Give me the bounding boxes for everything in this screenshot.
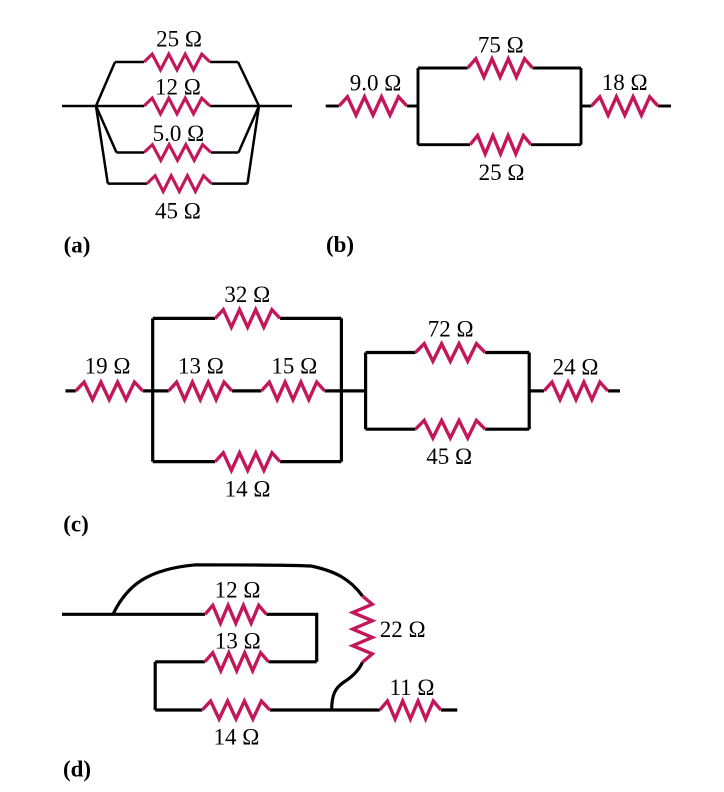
svg-text:45 Ω: 45 Ω: [155, 199, 201, 224]
svg-text:14 Ω: 14 Ω: [213, 724, 259, 749]
svg-text:12 Ω: 12 Ω: [215, 578, 261, 603]
svg-text:(c): (c): [63, 512, 89, 537]
svg-text:13 Ω: 13 Ω: [178, 354, 224, 379]
svg-text:(d): (d): [63, 757, 91, 782]
svg-text:22 Ω: 22 Ω: [380, 617, 426, 642]
svg-text:13 Ω: 13 Ω: [215, 628, 261, 653]
svg-text:72 Ω: 72 Ω: [428, 317, 474, 342]
svg-text:19 Ω: 19 Ω: [85, 353, 131, 378]
svg-text:11 Ω: 11 Ω: [390, 675, 435, 700]
svg-text:24 Ω: 24 Ω: [553, 355, 599, 380]
svg-text:25 Ω: 25 Ω: [156, 26, 202, 51]
svg-text:25 Ω: 25 Ω: [479, 160, 525, 185]
svg-text:15 Ω: 15 Ω: [271, 354, 317, 379]
svg-text:45 Ω: 45 Ω: [426, 444, 472, 469]
svg-text:18 Ω: 18 Ω: [602, 70, 648, 95]
svg-text:14 Ω: 14 Ω: [225, 477, 271, 502]
svg-text:12 Ω: 12 Ω: [155, 75, 201, 100]
svg-text:(b): (b): [326, 232, 354, 257]
svg-text:5.0 Ω: 5.0 Ω: [153, 121, 205, 146]
svg-text:(a): (a): [64, 232, 91, 257]
svg-text:75 Ω: 75 Ω: [478, 33, 524, 58]
svg-text:9.0 Ω: 9.0 Ω: [350, 71, 402, 96]
svg-text:32 Ω: 32 Ω: [224, 282, 270, 307]
